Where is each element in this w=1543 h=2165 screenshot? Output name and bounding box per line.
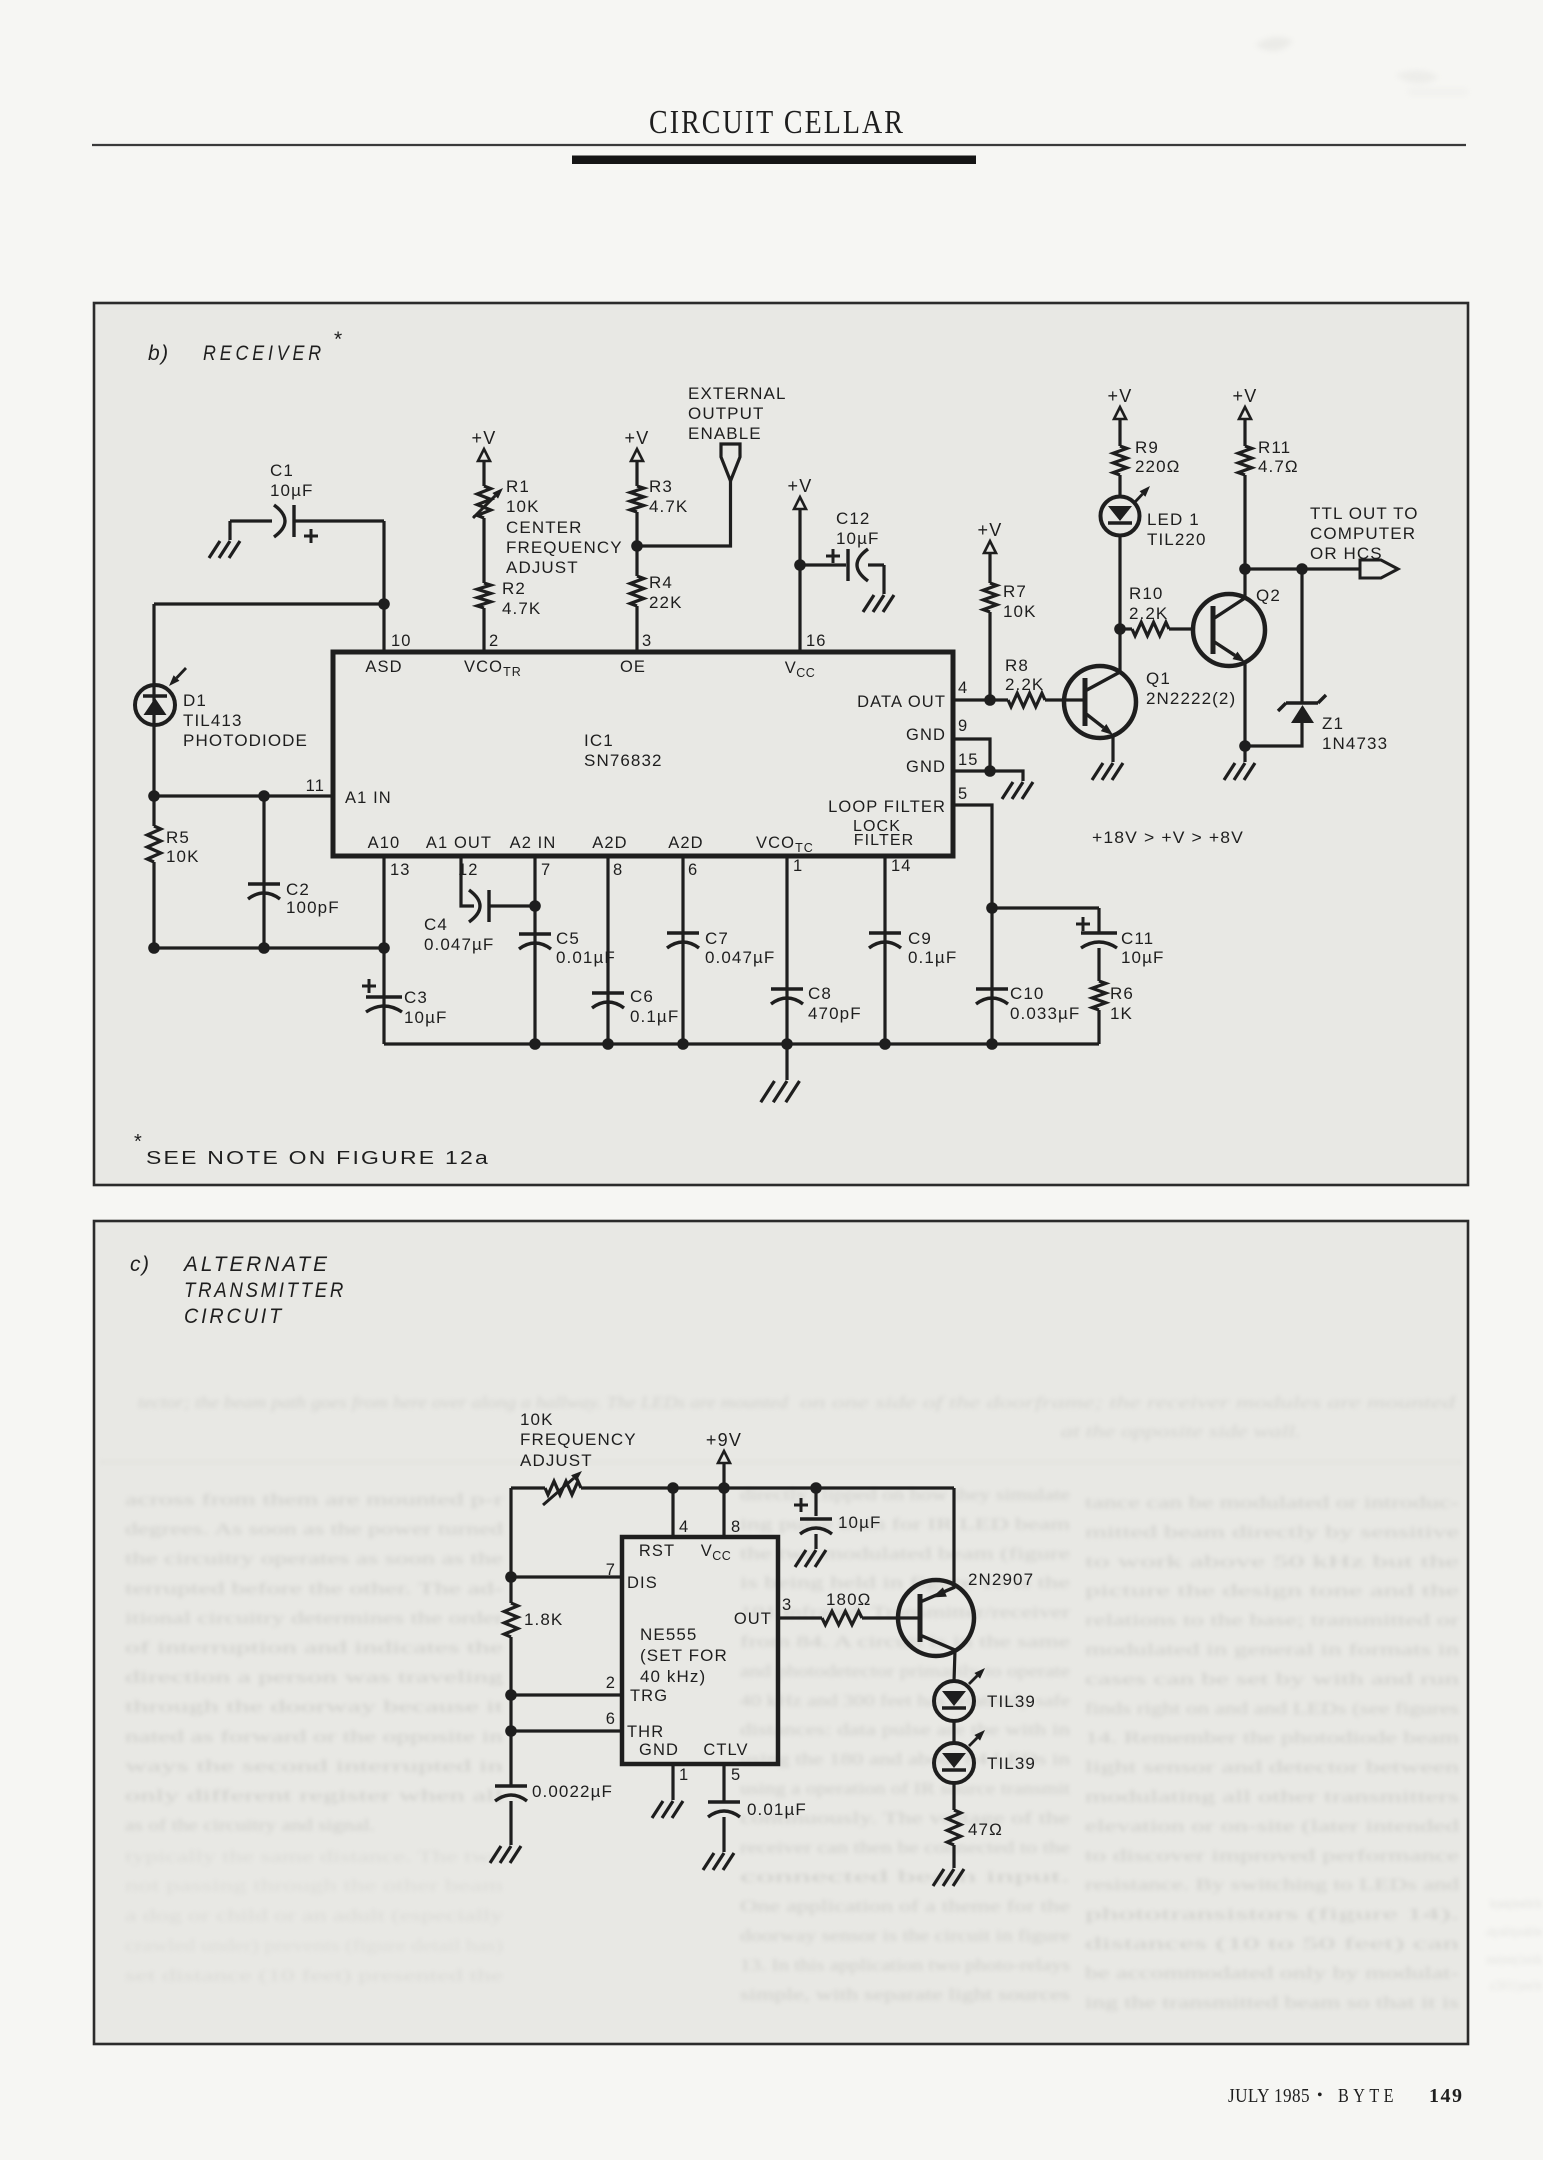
svg-text:10µF: 10µF — [1121, 948, 1165, 967]
svg-text:C6: C6 — [630, 987, 654, 1006]
svg-text:terrupted before the other. Th: terrupted before the other. The ad- — [125, 1579, 503, 1598]
svg-text:2.2K: 2.2K — [1129, 604, 1168, 623]
svg-text:8: 8 — [613, 861, 623, 879]
svg-text:14: 14 — [891, 857, 912, 875]
svg-text:40 kHz): 40 kHz) — [640, 1667, 706, 1686]
svg-text:the circuitry operates as soon: the circuitry operates as soon as the — [125, 1549, 503, 1568]
svg-text:OUT: OUT — [734, 1610, 772, 1628]
svg-text:R5: R5 — [166, 828, 190, 847]
svg-text:Q2: Q2 — [1256, 586, 1281, 605]
svg-text:to work above 50 kHz but: to work above 50 kHz but the — [1085, 1552, 1459, 1571]
svg-text:10µF: 10µF — [836, 529, 880, 548]
svg-text:TIL39: TIL39 — [987, 1754, 1036, 1773]
svg-text:finds right on and and LE: finds right on and and LEDs (see figures — [1085, 1699, 1459, 1718]
svg-text:8: 8 — [731, 1518, 741, 1536]
svg-text:CIRCUIT: CIRCUIT — [184, 1305, 284, 1328]
svg-text:+V: +V — [1233, 386, 1258, 406]
svg-text:SEE NOTE ON FIGURE 12a: SEE NOTE ON FIGURE 12a — [146, 1147, 490, 1168]
svg-text:a dog could trig an adult how: a dog could trig an adult how — [1486, 1924, 1542, 1940]
svg-text:10K: 10K — [506, 497, 540, 516]
svg-text:relations to the base; transmi: relations to the base; transmitted or — [1085, 1611, 1460, 1630]
svg-text:COMPUTER: COMPUTER — [1310, 524, 1416, 543]
svg-text:ASD: ASD — [365, 658, 402, 676]
svg-text:of interruption and indicat: of interruption and indicates the — [125, 1638, 503, 1657]
svg-text:+V: +V — [1108, 386, 1133, 406]
svg-text:2N2222(2): 2N2222(2) — [1146, 689, 1236, 708]
svg-text:typically the same distance. T: typically the same distance. The two — [125, 1847, 503, 1866]
svg-text:2N2907: 2N2907 — [968, 1570, 1034, 1589]
svg-text:14. Remember the photodiode: 14. Remember the photodiode beam — [1085, 1728, 1459, 1747]
svg-text:crossed pressing Circuit della: crossed pressing Circuit della — [1486, 1952, 1542, 1968]
svg-text:TIL220: TIL220 — [1147, 530, 1207, 549]
svg-text:tector; the beam path goes fro: tector; the beam path goes from here ove… — [138, 1393, 789, 1412]
svg-text:Q1: Q1 — [1146, 669, 1171, 688]
svg-text:IC1: IC1 — [584, 731, 614, 750]
svg-text:TIL413: TIL413 — [183, 711, 243, 730]
svg-text:220Ω: 220Ω — [1135, 457, 1180, 476]
svg-text:10µF: 10µF — [404, 1008, 448, 1027]
svg-text:0.1µF: 0.1µF — [908, 948, 957, 967]
svg-text:1K: 1K — [1110, 1004, 1133, 1023]
svg-text:THR: THR — [627, 1723, 664, 1741]
svg-text:6: 6 — [688, 861, 698, 879]
svg-text:to discover improved perfor: to discover improved performance — [1085, 1846, 1459, 1865]
svg-text:C7: C7 — [705, 929, 729, 948]
svg-text:GND: GND — [906, 758, 946, 776]
svg-text:(SET FOR: (SET FOR — [640, 1646, 728, 1665]
svg-text:100pF: 100pF — [286, 898, 340, 917]
svg-text:TRANSMITTER: TRANSMITTER — [184, 1279, 346, 1302]
svg-text:3: 3 — [782, 1596, 792, 1614]
svg-text:+V: +V — [978, 520, 1003, 540]
svg-text:at the opposite side wall.: at the opposite side wall. — [1061, 1422, 1301, 1441]
svg-text:470pF: 470pF — [808, 1004, 862, 1023]
svg-text:0.01µF: 0.01µF — [747, 1800, 807, 1819]
svg-text:PHOTODIODE: PHOTODIODE — [183, 731, 308, 750]
svg-text:across from them are mounted p: across from them are mounted p-r — [125, 1490, 504, 1509]
svg-text:+V: +V — [788, 476, 813, 496]
svg-text:0.1µF: 0.1µF — [630, 1007, 679, 1026]
svg-text:set distance (10 feet) present: set distance (10 feet) presented the — [125, 1966, 503, 1985]
svg-text:C1: C1 — [270, 461, 294, 480]
svg-text:4.7K: 4.7K — [649, 497, 688, 516]
svg-text:ing the transmitted beam s: ing the transmitted beam so that it is — [1085, 1993, 1459, 2012]
svg-text:be accommodated only by mod: be accommodated only by modulat- — [1085, 1963, 1459, 1982]
svg-text:elevation or on-site (later: elevation or on-site (later intended — [1085, 1816, 1460, 1835]
svg-text:the two modulated beam (figure: the two modulated beam (figure — [740, 1544, 1070, 1563]
svg-text:as of the circuitry and signal: as of the circuitry and signal. — [125, 1816, 375, 1835]
svg-text:+18V > +V > +8V: +18V > +V > +8V — [1092, 828, 1244, 847]
svg-text:A1 IN: A1 IN — [345, 789, 392, 807]
svg-text:4.7K: 4.7K — [502, 599, 541, 618]
svg-text:C10: C10 — [1010, 984, 1045, 1003]
svg-text:A1 OUT: A1 OUT — [426, 834, 492, 852]
svg-text:JULY 1985: JULY 1985 — [1228, 2085, 1310, 2107]
svg-text:RECEIVER: RECEIVER — [203, 342, 325, 365]
svg-text:10µF: 10µF — [838, 1513, 882, 1532]
svg-text:4: 4 — [679, 1518, 689, 1536]
svg-text:direction a person was tra: direction a person was traveling — [125, 1668, 503, 1687]
svg-text:ENABLE: ENABLE — [688, 424, 762, 443]
svg-text:ways the second interrupted: ways the second interrupted in — [125, 1756, 503, 1775]
svg-text:distances (10 to 50 feet) ca: distances (10 to 50 feet) can — [1085, 1934, 1459, 1953]
svg-text:tance can be modulated or in: tance can be modulated or introduc- — [1085, 1493, 1459, 1512]
svg-text:A2D: A2D — [668, 834, 703, 852]
svg-text:+9V: +9V — [706, 1430, 742, 1450]
svg-text:ALTERNATE: ALTERNATE — [182, 1253, 330, 1276]
svg-text:picture the design tone an: picture the design tone and the — [1085, 1581, 1459, 1600]
svg-text:TTL OUT TO: TTL OUT TO — [1310, 504, 1419, 523]
svg-text:•: • — [1317, 2087, 1323, 2104]
svg-text:*: * — [134, 1131, 143, 1153]
svg-text:TIL39: TIL39 — [987, 1692, 1036, 1711]
svg-text:DATA OUT: DATA OUT — [857, 693, 946, 711]
svg-text:5: 5 — [731, 1766, 741, 1784]
svg-text:C2: C2 — [286, 880, 310, 899]
svg-text:resistance. By switching to: resistance. By switching to LEDs and — [1085, 1875, 1460, 1894]
svg-text:SN76832: SN76832 — [584, 751, 663, 770]
svg-text:R3: R3 — [649, 477, 673, 496]
svg-text:A2 IN: A2 IN — [510, 834, 557, 852]
svg-text:11: 11 — [306, 777, 325, 795]
svg-text:C5: C5 — [556, 929, 580, 948]
svg-text:10µF: 10µF — [270, 481, 314, 500]
svg-text:RST: RST — [639, 1542, 675, 1560]
svg-text:at 2500 ft (I passed the: at 2500 ft (I passed the — [1490, 1978, 1542, 1994]
svg-text:2.2K: 2.2K — [1005, 675, 1044, 694]
svg-text:GND: GND — [906, 726, 946, 744]
svg-text:+V: +V — [472, 428, 497, 448]
svg-text:2: 2 — [606, 1674, 616, 1692]
svg-text:a dog or child or an adult (es: a dog or child or an adult (especially — [125, 1906, 504, 1925]
svg-text:TRG: TRG — [630, 1687, 668, 1705]
svg-text:modulated in general in fo: modulated in general in formats in — [1085, 1640, 1459, 1659]
svg-text:cases can be set by with a: cases can be set by with and run — [1085, 1669, 1459, 1688]
svg-text:and photodetector primarily to: and photodetector primarily to operate — [740, 1661, 1070, 1680]
svg-text:+V: +V — [625, 428, 650, 448]
svg-text:OR HCS: OR HCS — [1310, 544, 1383, 563]
svg-text:D1: D1 — [183, 691, 207, 710]
svg-text:6: 6 — [606, 1710, 616, 1728]
svg-text:1: 1 — [679, 1766, 689, 1784]
svg-text:C12: C12 — [836, 509, 871, 528]
svg-text:modulating all other transm: modulating all other transmitters — [1085, 1787, 1459, 1806]
svg-text:OE: OE — [620, 658, 646, 676]
svg-text:distances: data pulse are the: distances: data pulse are the with in — [740, 1720, 1070, 1739]
svg-text:10: 10 — [391, 632, 412, 650]
svg-text:using a operation of IR source: using a operation of IR source transmit — [740, 1779, 1071, 1798]
svg-text:degrees. As soon as the power: degrees. As soon as the power turned — [125, 1520, 504, 1539]
svg-text:C4: C4 — [424, 915, 448, 934]
svg-text:47Ω: 47Ω — [968, 1820, 1003, 1839]
svg-text:GND: GND — [639, 1741, 679, 1759]
svg-text:1: 1 — [793, 857, 803, 875]
svg-text:7: 7 — [541, 861, 551, 879]
svg-text:2: 2 — [489, 632, 499, 650]
svg-text:C11: C11 — [1121, 929, 1154, 948]
svg-text:1N4733: 1N4733 — [1322, 734, 1388, 753]
svg-text:Z1: Z1 — [1322, 714, 1344, 733]
svg-text:R6: R6 — [1110, 984, 1134, 1003]
svg-text:R11: R11 — [1258, 438, 1291, 457]
svg-text:16: 16 — [806, 632, 827, 650]
svg-text:OUTPUT: OUTPUT — [688, 404, 764, 423]
svg-text:LED 1: LED 1 — [1147, 510, 1200, 529]
svg-text:phototransistors (figure 14).: phototransistors (figure 14). — [1085, 1905, 1459, 1924]
svg-text:13: 13 — [390, 861, 411, 879]
svg-text:9: 9 — [958, 717, 968, 735]
svg-text:R2: R2 — [502, 579, 526, 598]
svg-text:mitted beam directly by se: mitted beam directly by sensitive — [1085, 1522, 1459, 1541]
svg-text:R4: R4 — [649, 573, 673, 592]
svg-text:CENTER: CENTER — [506, 518, 583, 537]
svg-text:180Ω: 180Ω — [826, 1590, 871, 1609]
svg-text:0.047µF: 0.047µF — [705, 948, 775, 967]
svg-text:through the doorway because: through the doorway because it — [125, 1697, 504, 1716]
svg-text:C8: C8 — [808, 984, 832, 1003]
svg-text:not passing through the other: not passing through the other beam — [125, 1876, 503, 1895]
svg-text:149: 149 — [1429, 2085, 1464, 2107]
svg-text:ing pulse train for IR LED bea: ing pulse train for IR LED beam — [740, 1514, 1070, 1533]
svg-text:itional circuitry determines t: itional circuitry determines the order — [125, 1608, 504, 1627]
svg-text:receiver can then be connecte: receiver can then be connected to the — [740, 1838, 1070, 1857]
svg-text:22K: 22K — [649, 593, 683, 612]
svg-text:5: 5 — [958, 785, 968, 803]
svg-text:BYTE: BYTE — [1338, 2085, 1398, 2107]
svg-text:FREQUENCY: FREQUENCY — [520, 1430, 637, 1449]
svg-text:10K: 10K — [166, 847, 200, 866]
svg-text:NE555: NE555 — [640, 1625, 697, 1644]
svg-text:R10: R10 — [1129, 584, 1164, 603]
svg-text:crawled under) prevents (figur: crawled under) prevents (figure detail h… — [125, 1936, 503, 1955]
svg-text:C3: C3 — [404, 988, 428, 1007]
svg-text:*: * — [334, 328, 343, 351]
svg-text:R7: R7 — [1003, 582, 1027, 601]
svg-text:CIRCUIT CELLAR: CIRCUIT CELLAR — [649, 104, 905, 141]
svg-text:LOOP FILTER: LOOP FILTER — [828, 798, 946, 816]
svg-text:R8: R8 — [1005, 656, 1029, 675]
svg-text:on one side of the doorframe;: on one side of the doorframe; the receiv… — [800, 1393, 1456, 1412]
svg-text:0.047µF: 0.047µF — [424, 935, 494, 954]
svg-text:connected beam input.: connected beam input. — [740, 1867, 1070, 1886]
svg-text:R9: R9 — [1135, 438, 1159, 457]
svg-text:CTLV: CTLV — [703, 1741, 748, 1759]
svg-text:but passing beyond the first: but passing beyond the first — [1490, 1896, 1542, 1912]
svg-text:nated as forward or the opposi: nated as forward or the opposite in — [125, 1727, 503, 1746]
svg-text:0.033µF: 0.033µF — [1010, 1004, 1080, 1023]
svg-text:13. In this application two ph: 13. In this application two photo-relays — [740, 1955, 1070, 1974]
svg-text:DIS: DIS — [627, 1574, 658, 1592]
svg-text:doorway sensor is the circuit: doorway sensor is the circuit in figure — [740, 1926, 1070, 1945]
svg-text:R1: R1 — [506, 477, 530, 496]
svg-text:3: 3 — [642, 632, 652, 650]
svg-text:ADJUST: ADJUST — [520, 1451, 593, 1470]
svg-text:A10: A10 — [368, 834, 401, 852]
svg-text:One application of a theme for: One application of a theme for the — [740, 1897, 1070, 1916]
svg-text:A2D: A2D — [592, 834, 627, 852]
svg-text:ADJUST: ADJUST — [506, 558, 579, 577]
svg-text:C9: C9 — [908, 929, 932, 948]
svg-text:0.0022µF: 0.0022µF — [532, 1782, 613, 1801]
svg-text:1.8K: 1.8K — [524, 1610, 563, 1629]
svg-text:b): b) — [148, 342, 170, 365]
svg-text:FILTER: FILTER — [854, 832, 915, 849]
svg-text:FREQUENCY: FREQUENCY — [506, 538, 623, 557]
svg-text:4.7Ω: 4.7Ω — [1258, 457, 1299, 476]
svg-text:light sensor and detector b: light sensor and detector between — [1085, 1758, 1459, 1777]
svg-text:c): c) — [130, 1253, 151, 1276]
svg-text:15: 15 — [958, 751, 979, 769]
svg-text:only different register whe: only different register when all — [125, 1786, 504, 1805]
svg-text:10K: 10K — [1003, 602, 1037, 621]
svg-text:EXTERNAL: EXTERNAL — [688, 384, 787, 403]
svg-text:4: 4 — [958, 679, 968, 697]
svg-text:simple, with separate light so: simple, with separate light sources — [740, 1985, 1070, 2004]
svg-text:10K: 10K — [520, 1410, 554, 1429]
